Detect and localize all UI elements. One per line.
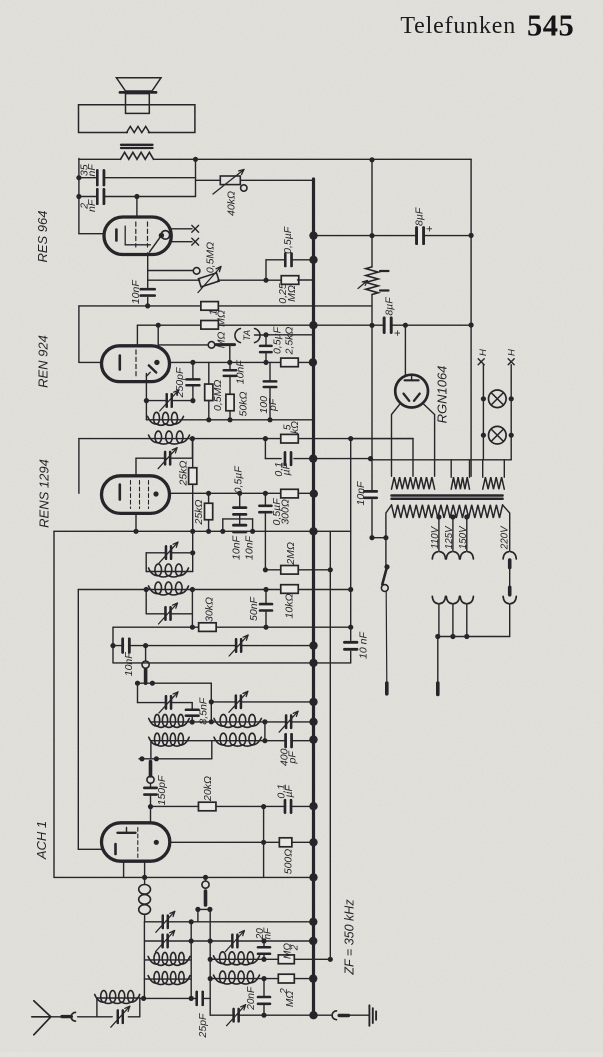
- svg-text:50kΩ: 50kΩ: [237, 392, 249, 417]
- terminal 40kOhm: [241, 185, 247, 191]
- coil osc L1: [149, 718, 157, 726]
- node IFT2 right: [190, 550, 195, 555]
- wire contact y683: [138, 682, 212, 684]
- node y325/372: [369, 323, 374, 328]
- node bus y493: [310, 490, 318, 498]
- rail x210: [209, 909, 211, 1015]
- svg-text:MΩ: MΩ: [286, 285, 298, 302]
- node y941/210: [208, 938, 213, 943]
- socket 110V: [432, 552, 438, 559]
- winding secondary HV: [392, 477, 435, 489]
- wire gang line y663: [113, 662, 351, 664]
- resistor RGN feed drop: [404, 325, 406, 375]
- capacitor 35nF: [96, 170, 99, 185]
- svg-text:Telefunken: Telefunken: [400, 13, 516, 39]
- wire HT line y235: [314, 235, 472, 237]
- wire 01uF to bus: [294, 458, 371, 460]
- wire 250pF column: [192, 362, 194, 379]
- wire 20nF1 column: [263, 941, 265, 947]
- speaker field winding: [121, 152, 154, 159]
- svg-text:ACH 1: ACH 1: [34, 821, 49, 860]
- rail x144 lower: [143, 922, 145, 999]
- node TA cap: [263, 332, 268, 337]
- wire grid line y438: [79, 438, 413, 440]
- svg-text:10nF: 10nF: [123, 652, 135, 677]
- tube ACH1: [102, 823, 170, 861]
- wire 01uF corner: [264, 439, 266, 459]
- svg-text:250pF: 250pF: [174, 367, 186, 398]
- svg-text:20nF: 20nF: [246, 986, 257, 1011]
- svg-text:MΩ: MΩ: [285, 991, 296, 1007]
- node y941/191: [189, 938, 194, 943]
- variable capacitor osc trim: [232, 1009, 234, 1022]
- variable capacitor padder: [235, 639, 237, 652]
- resistor 50kOhm: [226, 394, 234, 411]
- wire IFT2 right post: [192, 531, 194, 571]
- node y570/A: [328, 567, 333, 572]
- coil osc L2: [149, 737, 157, 745]
- antenna plug pin: [62, 1015, 71, 1018]
- wire pot to 0,25M: [218, 279, 283, 281]
- node bus y941: [309, 937, 317, 945]
- wire IF3 varcap line: [146, 613, 192, 615]
- resistor second MOhm: [201, 321, 219, 330]
- node B y589: [348, 587, 353, 592]
- RGN filament: [404, 394, 410, 401]
- node y758/142: [139, 756, 144, 761]
- wire drop x195: [195, 159, 197, 196]
- node y959/264: [261, 957, 266, 962]
- svg-text:125V: 125V: [444, 525, 455, 549]
- loudspeaker: [116, 78, 161, 91]
- wire RGN fil right: [423, 404, 434, 476]
- tap 125V: [450, 514, 455, 519]
- node y235/372: [369, 233, 374, 238]
- svg-text:10nF: 10nF: [244, 535, 256, 560]
- variable capacitor ant trim: [117, 1010, 119, 1023]
- wire RES964 gridcap 1: [171, 228, 192, 230]
- resistor 2MOhm second: [278, 974, 294, 983]
- node y636/438: [435, 634, 440, 639]
- svg-text:nF: nF: [263, 927, 274, 940]
- capacitor 20nF second: [258, 996, 270, 1005]
- capacitor 400pF: [284, 734, 287, 747]
- wire IFT2 varcap line: [146, 552, 193, 554]
- node lamp2 right: [509, 433, 514, 438]
- coil oscillator feedback: [144, 877, 146, 884]
- node y325/471: [469, 322, 474, 327]
- node y493/208: [206, 491, 211, 496]
- wire jack2 line: [158, 344, 208, 346]
- node bus y458: [309, 454, 317, 462]
- heater rail 2: [510, 365, 512, 460]
- wire x265 link: [264, 722, 266, 741]
- RES964 screen dash: [147, 222, 149, 247]
- heater rail 1: [482, 365, 484, 460]
- capacitor 2nF: [96, 189, 99, 204]
- node x372 y537: [369, 535, 374, 540]
- wire 0,5M grid column: [208, 362, 210, 384]
- wire x192 drop: [191, 439, 193, 459]
- resistor 30kOhm: [199, 623, 217, 632]
- wire HV centre tap: [351, 438, 413, 440]
- left rail x79 mid: [78, 306, 80, 363]
- svg-text:kΩ: kΩ: [290, 421, 301, 434]
- wire x264 y1015 node: [261, 1013, 266, 1018]
- node y877/205: [203, 875, 208, 880]
- resistor 10kOhm: [281, 585, 299, 594]
- wire bottom line y1015: [210, 1014, 313, 1016]
- node y493/240: [237, 491, 242, 496]
- wire x265 drop: [264, 531, 266, 570]
- capacitor 250pF: [186, 378, 199, 386]
- variable capacitor tuning 2: [164, 452, 166, 465]
- wire ant loop right: [139, 998, 141, 1017]
- node y722/192: [190, 719, 195, 724]
- node B y627: [348, 625, 353, 630]
- node y531/136: [133, 529, 138, 534]
- node 2nF left: [76, 194, 81, 199]
- capacitor 0,5uF top: [284, 254, 287, 266]
- resistor 5kOhm: [281, 434, 299, 443]
- rail B x351: [350, 439, 352, 663]
- node y438/192: [190, 436, 195, 441]
- plug 110V: [432, 596, 438, 603]
- antenna: [34, 1001, 51, 1017]
- wire RES964 gridcap 2: [171, 241, 192, 243]
- coil IFT2 primary: [149, 568, 159, 576]
- capacitor 20nF first: [258, 946, 270, 955]
- wire REN924 plate line: [170, 361, 313, 363]
- svg-text:nF: nF: [86, 164, 98, 177]
- resistor 2,5kOhm: [281, 358, 299, 367]
- capacitor 8uF first: [415, 228, 418, 244]
- wire 10kOhm line y589: [78, 589, 350, 591]
- wire tap line y280: [148, 279, 200, 281]
- svg-text:REN 924: REN 924: [35, 335, 50, 388]
- node y589/266: [263, 587, 268, 592]
- node bus y978: [309, 974, 317, 982]
- node bus y921: [309, 918, 317, 926]
- svg-text:25pF: 25pF: [197, 1013, 209, 1039]
- wire coil line y740: [151, 740, 314, 742]
- node y458/370: [368, 456, 373, 461]
- node bus y362: [309, 358, 317, 366]
- resistor 2MOhm first: [278, 955, 294, 964]
- node top-line/195: [193, 157, 198, 162]
- potentiometer 40kOhm: [220, 176, 240, 185]
- svg-text:0,5MΩ: 0,5MΩ: [212, 380, 224, 411]
- REN924 cathode: [119, 356, 122, 370]
- wire 2MOhm line: [265, 569, 330, 571]
- RES964 filament bracket: [125, 226, 150, 245]
- svg-text:+: +: [392, 330, 404, 336]
- wire ant to 25pF: [140, 997, 210, 999]
- socket 125V: [446, 552, 452, 559]
- ACH1 grid dash: [137, 828, 139, 858]
- svg-text:10kΩ: 10kΩ: [283, 594, 295, 619]
- switch blade pickup: [216, 343, 235, 346]
- wire 40k to pot: [196, 179, 221, 181]
- variable capacitor trimmer R1: [285, 715, 287, 728]
- wire 30kOhm line y627: [113, 626, 351, 628]
- node y531/192: [190, 529, 195, 534]
- wire coil line L1: [144, 959, 191, 961]
- node y909/210: [207, 907, 212, 912]
- wire grid line y325: [137, 324, 313, 326]
- svg-text:2,5kΩ: 2,5kΩ: [284, 327, 296, 356]
- svg-text:H: H: [506, 349, 517, 356]
- node bus y740: [309, 735, 317, 743]
- wire TA cap drop: [265, 335, 267, 346]
- winding secondary 4V: [451, 477, 469, 489]
- node bus y806: [309, 802, 317, 810]
- coil ant L1: [148, 956, 157, 964]
- socket 150V: [460, 552, 466, 559]
- wire 220V mid: [509, 568, 511, 587]
- svg-text:pF: pF: [267, 398, 279, 412]
- svg-text:150V: 150V: [458, 525, 469, 549]
- svg-text:500Ω: 500Ω: [283, 849, 295, 875]
- wire varcap line y458: [136, 457, 192, 459]
- svg-text:10nF: 10nF: [355, 481, 367, 506]
- x mark gridcap 2: [192, 238, 199, 245]
- svg-text:10nF: 10nF: [234, 360, 246, 385]
- wire 1MOhm line y306: [79, 305, 372, 307]
- capacitor 10nF het: [121, 639, 124, 653]
- variable capacitor osc tune: [162, 916, 164, 929]
- wire primary left: [386, 505, 392, 567]
- wire to volume pot: [148, 270, 194, 272]
- coil antenna: [95, 995, 104, 1003]
- mains pin left: [385, 683, 389, 694]
- wire 10nF pair loop: [239, 493, 241, 507]
- node y627/192: [190, 625, 195, 630]
- wire RENS grid: [135, 458, 137, 476]
- node lamp1 right: [509, 396, 514, 401]
- REN924 anode: [154, 360, 159, 365]
- svg-text:25kΩ: 25kΩ: [177, 461, 189, 487]
- capacitor 10nF sg: [224, 369, 237, 377]
- node primary left tap: [383, 535, 388, 540]
- coil IF3 primary: [149, 586, 159, 594]
- svg-text:pF: pF: [287, 751, 299, 765]
- wire ant loop left: [96, 998, 98, 1017]
- wire 20k line y806: [151, 805, 314, 807]
- x mark gridcap 1: [192, 225, 199, 232]
- wire y325 right: [314, 324, 472, 326]
- capacitor 10nF pair lower: [234, 524, 246, 534]
- wire RES964 anode drop: [147, 253, 149, 306]
- wire varcap line y400: [146, 400, 193, 402]
- tube RES964: [104, 217, 171, 255]
- node y921/191: [189, 919, 194, 924]
- node 10nF bottom: [145, 303, 150, 308]
- wire osc varcap line L: [138, 702, 193, 704]
- ground plug pin: [339, 1014, 348, 1017]
- hum resistor column x372: [371, 160, 373, 267]
- coil ant L2: [148, 976, 157, 984]
- wire x137 drop: [137, 683, 139, 702]
- coil osc R2: [214, 737, 223, 745]
- left rail x78 lower: [77, 590, 79, 850]
- svg-text:8µF: 8µF: [414, 207, 426, 226]
- svg-text:8µF: 8µF: [383, 297, 395, 316]
- svg-text:20kΩ: 20kΩ: [202, 776, 214, 802]
- wire osc tune line y921: [145, 921, 314, 923]
- RES964 cathode: [115, 230, 118, 241]
- RENS grid dashes: [130, 481, 132, 509]
- wire 10nF line y645: [113, 645, 314, 647]
- capacitor 8uF second: [383, 318, 386, 333]
- capacitor 100pF: [264, 380, 277, 388]
- resistor hum adjuster: [366, 267, 378, 295]
- node y400/193: [190, 398, 195, 403]
- tube RENS1294: [102, 476, 170, 514]
- capacitor 8,5nF: [186, 708, 199, 717]
- RENS cathode: [119, 485, 122, 500]
- switch band: [205, 877, 207, 881]
- node 35nF left: [76, 175, 81, 180]
- capacitor 25pF: [195, 992, 198, 1005]
- mains pin right: [436, 683, 440, 695]
- capacitor 10nF grid: [141, 288, 155, 297]
- wire heater return y460: [371, 459, 512, 461]
- wire 220V tap: [503, 505, 510, 551]
- variable capacitor tuning 1: [165, 394, 167, 407]
- node y419/270: [267, 417, 272, 422]
- node y400/146: [144, 398, 149, 403]
- svg-text:545: 545: [527, 8, 574, 42]
- variable capacitor band L: [161, 935, 163, 948]
- mains switch: [384, 564, 389, 569]
- wire 0,5uF left corner: [266, 259, 285, 261]
- node y438/351: [348, 436, 353, 441]
- wire 150pF column: [150, 783, 152, 788]
- ACH1 plate bar: [118, 832, 136, 834]
- svg-text:RGN1064: RGN1064: [435, 366, 450, 424]
- wire x372 to primary: [372, 537, 386, 539]
- wire antenna line: [78, 1016, 97, 1018]
- svg-text:TA: TA: [242, 330, 252, 341]
- svg-text:MΩ: MΩ: [283, 943, 294, 959]
- node y531/223: [220, 529, 225, 534]
- REN924 grid dash: [135, 350, 137, 377]
- coil IF1 primary: [148, 416, 157, 424]
- wire contact y909: [198, 908, 210, 910]
- main HT bus: [312, 179, 315, 1016]
- resistor 25kOhm first: [189, 468, 197, 485]
- capacitor 0,1uF anode: [284, 452, 287, 465]
- wire heat stubs: [482, 460, 484, 477]
- coil IF1 secondary: [149, 435, 159, 443]
- pin 220V lower: [508, 587, 512, 595]
- node pot/cap junction: [263, 278, 268, 283]
- ACH1 cathode: [114, 844, 117, 854]
- svg-text:RES 964: RES 964: [35, 210, 50, 262]
- node bus y877: [309, 873, 317, 881]
- resistor 0,25MOhm: [281, 276, 299, 285]
- wire ant coil line: [97, 997, 140, 999]
- plug 125V: [446, 596, 452, 603]
- wire 4V stubs: [450, 460, 452, 477]
- resistor 300Ohm: [281, 489, 299, 498]
- ACH1 anode: [154, 840, 159, 845]
- right rail x471: [470, 159, 472, 476]
- switch wave 2: [149, 762, 153, 777]
- node bus y842: [309, 838, 317, 846]
- node bus y235: [309, 231, 317, 239]
- RGN anode bar: [405, 379, 419, 381]
- node bus y1015: [309, 1011, 317, 1019]
- wire 2M line y978: [210, 978, 313, 980]
- plug 150V: [460, 596, 466, 603]
- capacitor 0,5uF 300: [259, 505, 271, 514]
- capacitor 10nF smoothing: [364, 490, 376, 499]
- tap 150V: [464, 514, 469, 519]
- svg-text:µF: µF: [281, 462, 293, 475]
- svg-text:10 nF: 10 nF: [358, 631, 370, 658]
- node y978/210: [208, 976, 213, 981]
- resistor 0,5MOhm grid: [205, 384, 213, 401]
- variable capacitor osc L: [165, 696, 167, 709]
- node y419/209: [206, 417, 211, 422]
- wire coil line L2: [144, 978, 191, 980]
- wire plug bar y636: [438, 636, 510, 638]
- node y909/198: [195, 907, 200, 912]
- node 2nF grid tap: [134, 194, 139, 199]
- node y758/156: [154, 756, 159, 761]
- node y493/265: [263, 491, 268, 496]
- tube RGN1064: [395, 375, 428, 408]
- wire x211 drop: [210, 683, 212, 722]
- node bus y260: [309, 256, 317, 264]
- wire RENS cathode drop: [135, 513, 137, 531]
- svg-text:8,5nF: 8,5nF: [197, 697, 209, 724]
- wire blade drop: [229, 346, 231, 362]
- node bus y702: [309, 698, 317, 706]
- wire TA to cap: [255, 334, 267, 336]
- node y419/230: [227, 417, 232, 422]
- ground: [368, 1005, 370, 1026]
- wire 40k to bus: [240, 179, 313, 181]
- node y589/146: [144, 587, 149, 592]
- node x113 y645: [110, 643, 115, 648]
- pickup TA symbol: [235, 329, 241, 343]
- variable capacitor osc R: [235, 696, 237, 709]
- node y842/264: [261, 840, 266, 845]
- node bus y325: [309, 321, 317, 329]
- lamp second: [489, 426, 507, 444]
- svg-text:50nF: 50nF: [248, 596, 260, 621]
- plug 220V: [503, 596, 509, 603]
- svg-text:30kΩ: 30kΩ: [204, 597, 216, 622]
- wire x198 drop: [197, 909, 199, 921]
- node y362/193: [190, 360, 195, 365]
- capacitor 0,1uF osc: [284, 800, 287, 813]
- wire ACH1 left: [78, 848, 101, 850]
- wire RES964 grid: [136, 197, 138, 218]
- node y645/145: [143, 643, 148, 648]
- node top-line/372: [369, 157, 374, 162]
- node y806/264: [261, 804, 266, 809]
- wire ACH1 plate line: [170, 841, 314, 843]
- resistor 25kOhm second: [205, 503, 213, 520]
- tap 110V: [436, 514, 441, 519]
- wire coil line y722: [151, 721, 314, 723]
- node y941/264: [261, 938, 266, 943]
- svg-text:220V: 220V: [500, 525, 511, 550]
